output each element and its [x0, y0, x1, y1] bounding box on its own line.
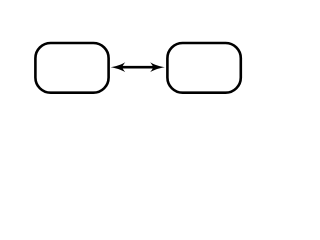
wire (arrow shaft between boxes)	[118, 66, 158, 69]
node box A (left rounded rectangle)	[35, 43, 108, 93]
arrowhead left (pointing at box A)	[111, 62, 126, 72]
arrowhead right (pointing at box B)	[150, 62, 165, 72]
node box B (right rounded rectangle)	[167, 43, 240, 93]
